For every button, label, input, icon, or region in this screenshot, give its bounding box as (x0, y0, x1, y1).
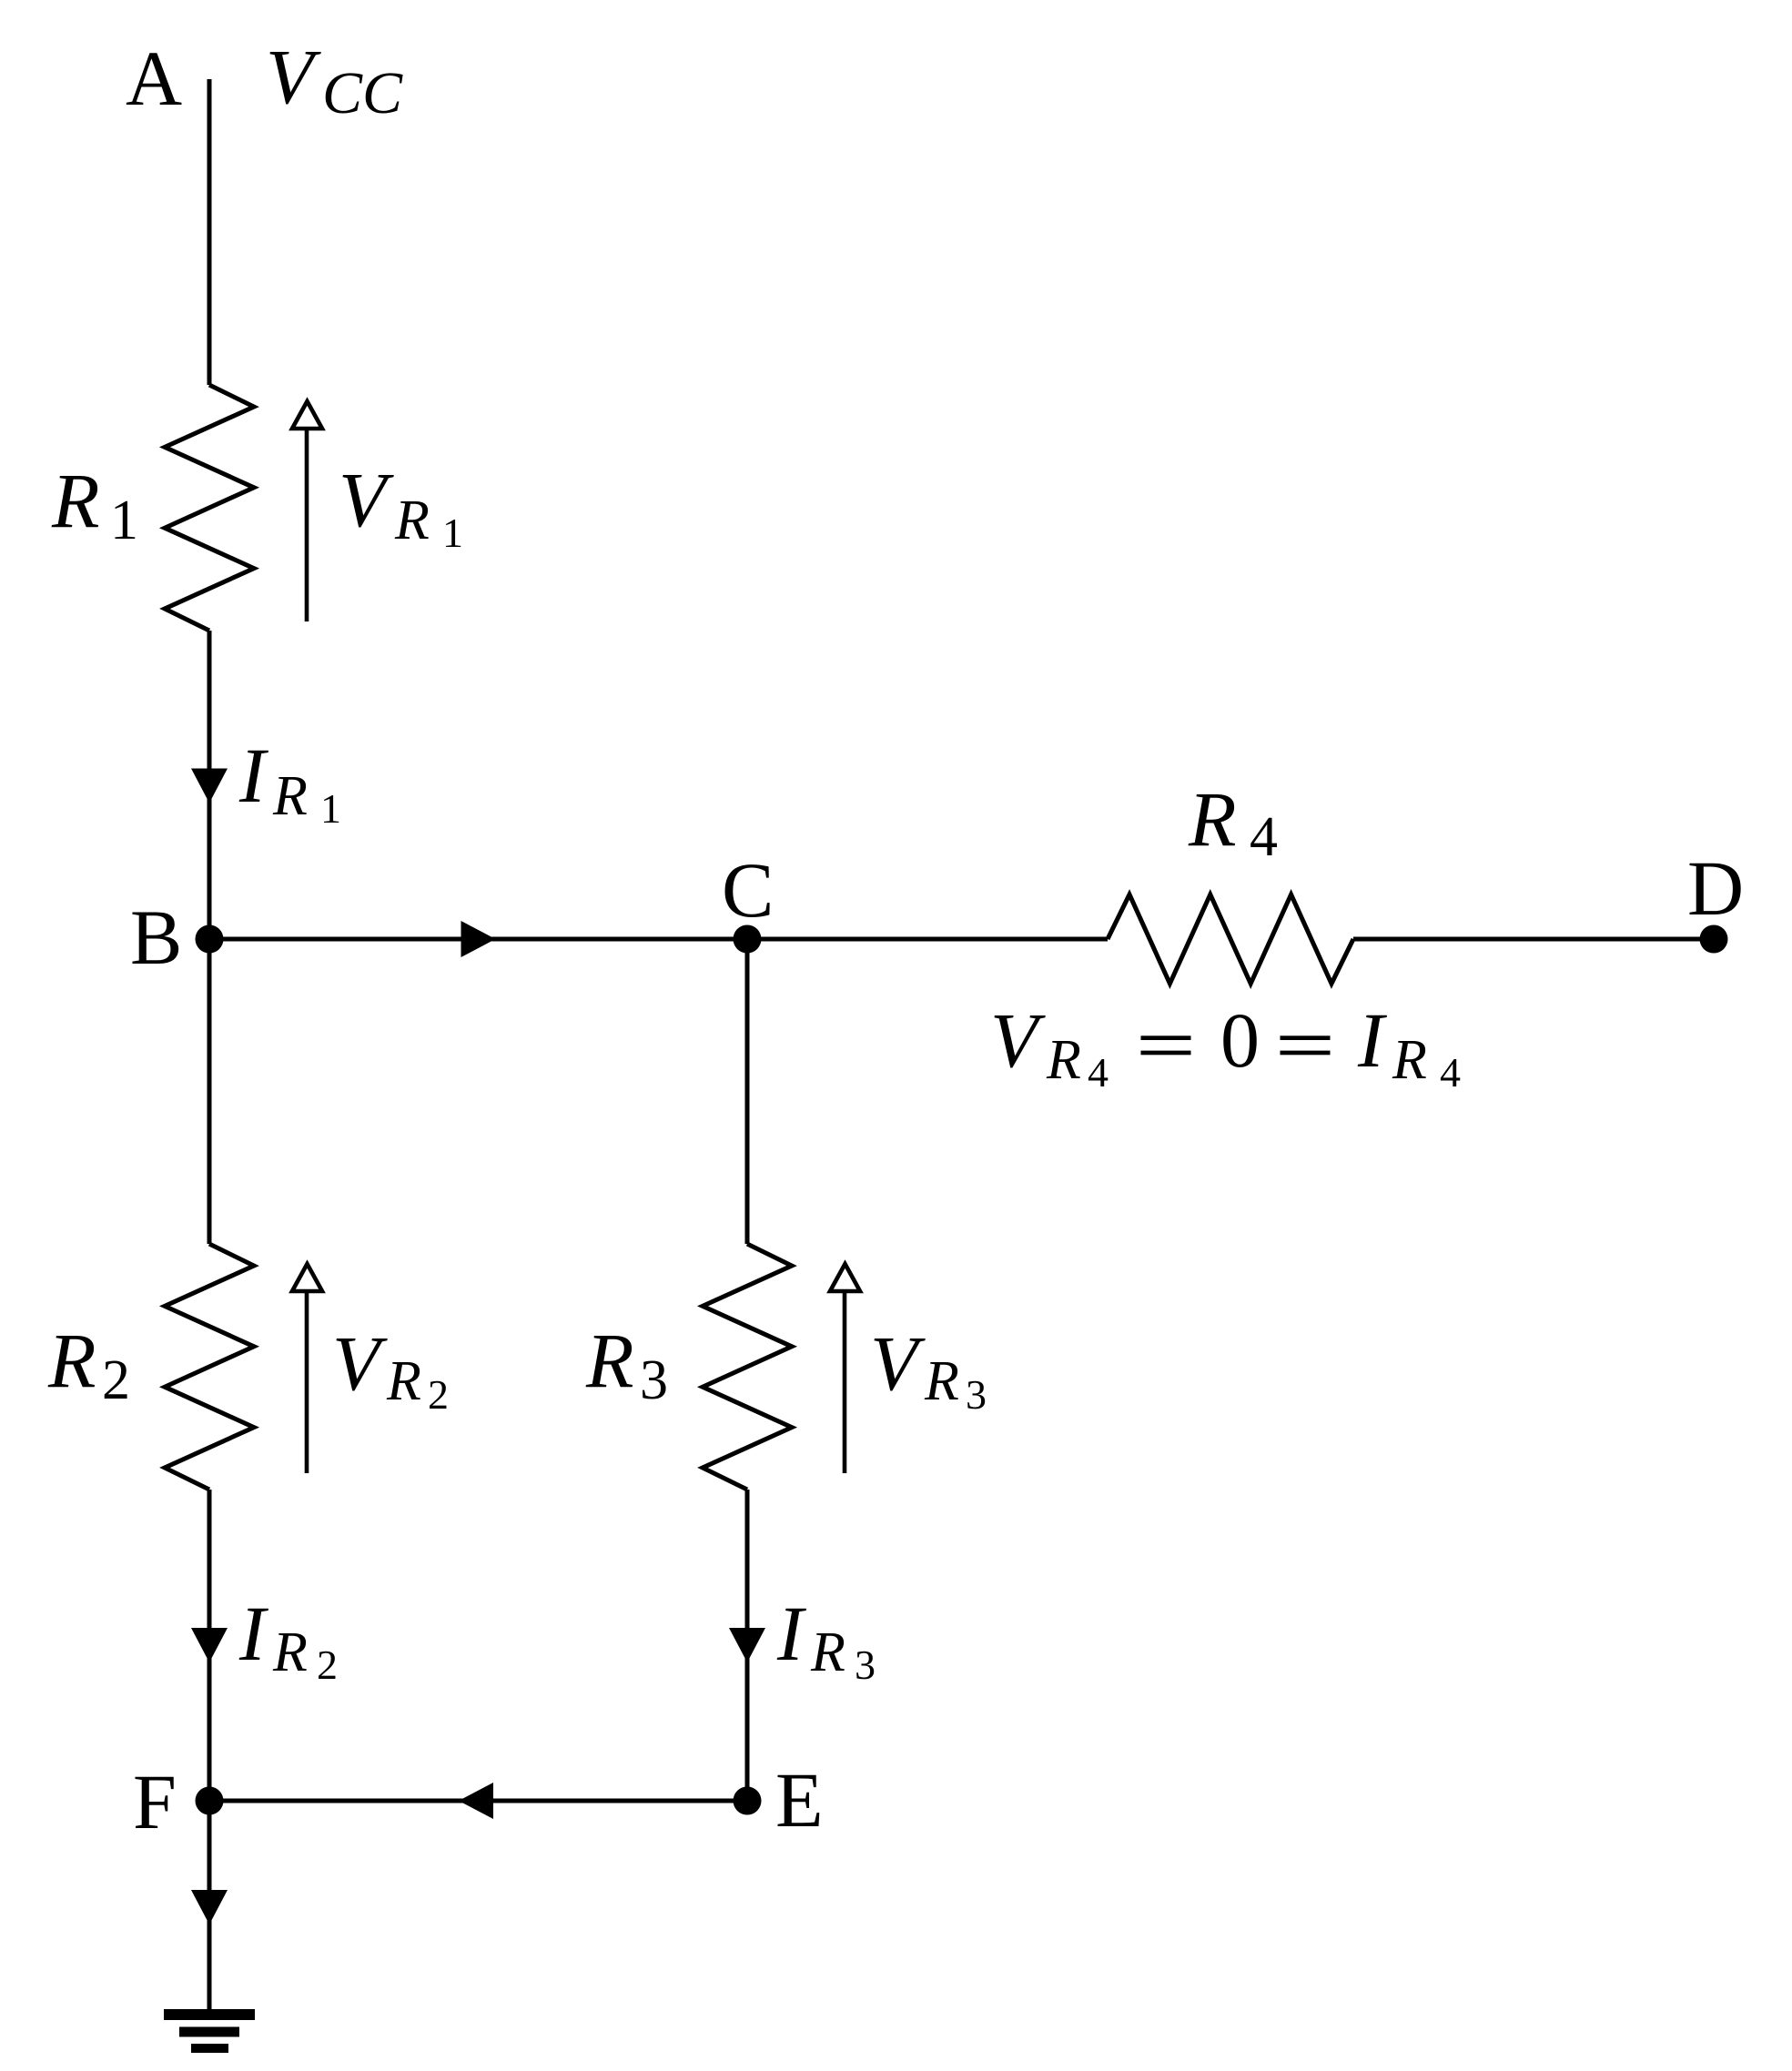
wire R1 to node B (208, 631, 212, 939)
svg-text:R: R (386, 1350, 421, 1412)
svg-text:C: C (722, 846, 774, 934)
wire F to ground (208, 1801, 212, 2009)
wire R3 to node E (745, 1490, 750, 1801)
svg-text:3: 3 (966, 1371, 987, 1418)
wire R2 to node F (208, 1490, 212, 1801)
svg-text:B: B (130, 894, 182, 981)
svg-text:R: R (1188, 775, 1237, 863)
svg-text:V: V (990, 996, 1046, 1084)
current arrow IR2 (191, 1628, 228, 1662)
svg-text:V: V (339, 456, 394, 543)
svg-text:2: 2 (102, 1349, 130, 1411)
wire C to R3 (745, 939, 750, 1244)
svg-text:2: 2 (428, 1371, 449, 1418)
svg-text:1: 1 (110, 490, 138, 551)
svg-text:I: I (1357, 996, 1387, 1084)
svg-text:D: D (1687, 844, 1744, 932)
wire C to R4 (747, 937, 1108, 942)
svg-text:CC: CC (322, 60, 403, 126)
svg-text:1: 1 (320, 785, 341, 832)
svg-text:2: 2 (317, 1642, 338, 1688)
svg-text:R: R (272, 765, 308, 827)
current arrow IR3 (729, 1628, 765, 1662)
node B (196, 925, 224, 954)
svg-text:R: R (51, 457, 100, 544)
wire B to R2 (208, 939, 212, 1244)
svg-text:I: I (776, 1590, 806, 1677)
svg-text:R: R (1392, 1029, 1427, 1091)
svg-text:0: 0 (1220, 996, 1260, 1084)
resistor R3 (703, 1244, 792, 1490)
resistor R1 (165, 385, 254, 631)
svg-text:4: 4 (1088, 1049, 1109, 1096)
wire E to F (209, 1799, 747, 1803)
node C (734, 925, 762, 954)
svg-text:R: R (585, 1317, 634, 1404)
node D (1700, 925, 1728, 954)
svg-text:1: 1 (442, 510, 463, 556)
voltage arrow VR2 (292, 1264, 322, 1473)
svg-text:3: 3 (640, 1349, 668, 1411)
svg-text:F: F (133, 1758, 177, 1845)
wire R4 to node D (1353, 937, 1714, 942)
svg-text:4: 4 (1440, 1049, 1461, 1096)
svg-text:R: R (810, 1621, 845, 1683)
node E (734, 1787, 762, 1815)
current arrow IR1 (191, 769, 228, 803)
svg-text:V: V (266, 33, 321, 120)
svg-text:I: I (238, 1590, 268, 1677)
node F (196, 1787, 224, 1815)
svg-text:R: R (272, 1621, 308, 1683)
svg-text:R: R (394, 490, 430, 551)
current arrow B to C (461, 921, 496, 957)
svg-text:V: V (332, 1319, 388, 1407)
svg-text:E: E (775, 1756, 824, 1844)
svg-text:I: I (238, 732, 268, 819)
svg-text:3: 3 (855, 1642, 876, 1688)
wire B to C (209, 937, 747, 942)
ground (164, 2015, 255, 2048)
current arrow E to F (459, 1783, 493, 1819)
resistor R2 (165, 1244, 254, 1490)
svg-text:R: R (1046, 1029, 1081, 1091)
wire A to R1 (208, 79, 212, 385)
svg-text:R: R (47, 1317, 96, 1404)
current arrow F to ground (191, 1890, 228, 1925)
voltage arrow VR1 (292, 401, 322, 621)
resistor R4 (1108, 894, 1353, 984)
svg-text:A: A (126, 35, 182, 122)
svg-text:V: V (870, 1319, 926, 1407)
svg-text:4: 4 (1250, 806, 1278, 868)
voltage arrow VR3 (830, 1264, 860, 1473)
svg-text:R: R (924, 1350, 959, 1412)
